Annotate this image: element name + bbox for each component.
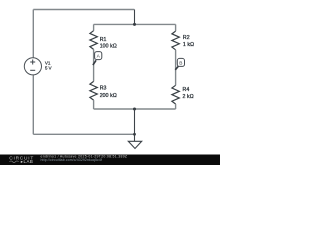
wire left branch middle: [93, 49, 95, 81]
wire left branch top lead: [93, 24, 95, 30]
wire V1 bottom lead: [32, 75, 34, 135]
junction dot bottom rail: [133, 133, 136, 136]
ammeter probe A: [95, 52, 102, 60]
voltage source V1: [24, 58, 41, 75]
svg-text:R3: R3: [100, 86, 107, 92]
junction dot top node: [133, 23, 136, 26]
plus sign: [30, 60, 35, 65]
svg-text:▸LAB: ▸LAB: [21, 159, 34, 164]
wire right branch middle: [175, 50, 177, 86]
svg-text:http://circuitlab.com/c/43292n: http://circuitlab.com/c/43292nkuq5c4f: [41, 158, 102, 162]
ground: [128, 141, 141, 148]
svg-text:2 kΩ: 2 kΩ: [183, 94, 194, 100]
wire right branch top lead: [175, 24, 177, 31]
junction dot bottom node: [133, 108, 136, 111]
svg-text:B: B: [179, 60, 182, 66]
svg-text:100 kΩ: 100 kΩ: [100, 44, 117, 50]
svg-text:1 kΩ: 1 kΩ: [183, 42, 194, 48]
resistor R2: [172, 31, 179, 50]
resistor R1: [90, 31, 97, 50]
wire right branch bottom lead: [175, 104, 177, 109]
svg-text:R4: R4: [183, 87, 190, 93]
wire ground drop: [134, 109, 136, 141]
ammeter probe A tail: [93, 60, 96, 65]
watermark bar: [0, 155, 220, 166]
wire left branch bottom lead: [93, 100, 95, 109]
wire drop from top rail to node: [134, 10, 136, 25]
svg-text:R2: R2: [183, 35, 190, 41]
wire top node rail: [94, 23, 176, 25]
svg-text:200 kΩ: 200 kΩ: [100, 93, 117, 99]
minus sign: [30, 69, 35, 71]
watermark logo wave: [10, 161, 19, 163]
resistor R4: [172, 85, 179, 104]
ammeter probe B: [177, 58, 184, 66]
svg-text:R1: R1: [100, 37, 107, 43]
svg-text:5 V: 5 V: [45, 66, 53, 71]
wire bottom node rail: [94, 108, 176, 110]
resistor R3: [90, 81, 97, 100]
wire top rail: [33, 9, 134, 11]
wire left rail (V1 top to top-left corner): [32, 10, 34, 58]
wire bottom rail from V1: [33, 133, 134, 135]
ammeter probe B tail: [175, 66, 178, 70]
